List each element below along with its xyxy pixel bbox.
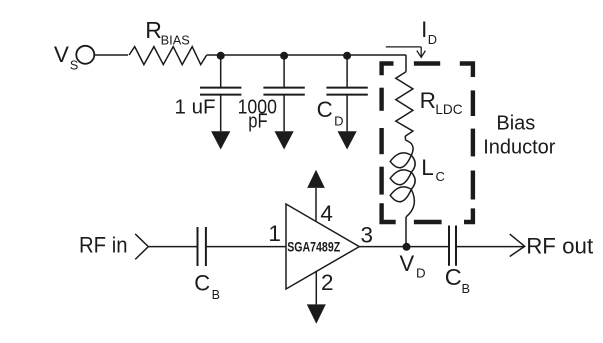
wire elbow into bias box (405, 55, 407, 72)
svg-text:CB: CB (194, 270, 220, 301)
wire top rail (207, 54, 406, 56)
svg-text:1: 1 (268, 221, 281, 246)
ground arrow 2 (275, 131, 294, 149)
svg-text:LC: LC (421, 155, 445, 184)
ground arrow 3 (338, 131, 357, 149)
svg-text:RBIAS: RBIAS (145, 17, 190, 47)
wire coil to VD node (405, 217, 407, 247)
inductor LC (390, 140, 415, 217)
node VD (403, 243, 411, 251)
node junction 3 (343, 52, 351, 60)
svg-text:VD: VD (400, 251, 426, 281)
capacitor 1uF (200, 55, 241, 131)
capacitor CB output (449, 226, 456, 266)
svg-text:Inductor: Inductor (483, 137, 556, 159)
pin 4 wire (315, 188, 317, 221)
svg-text:1 uF: 1 uF (175, 97, 216, 119)
dashed box bias inductor (382, 64, 473, 223)
svg-text:RF in: RF in (79, 233, 128, 258)
svg-text:SGA7489Z: SGA7489Z (287, 238, 340, 254)
svg-text:4: 4 (320, 201, 333, 226)
op-amp U1 triangle (286, 204, 359, 289)
capacitor CD (326, 55, 367, 131)
terminal circle Vs (76, 46, 94, 64)
wire amp to CB out (359, 246, 449, 248)
port RF out arrow (510, 234, 525, 256)
port RF in (135, 234, 148, 260)
svg-text:pF: pF (248, 111, 267, 133)
wire Vs to Rbias (94, 54, 128, 56)
wire RFin to CB (148, 246, 197, 248)
pin 2 arrow down (307, 304, 326, 323)
resistor RLDC (396, 72, 413, 137)
node junction 1 (217, 52, 225, 60)
pin 2 wire (315, 271, 317, 305)
svg-text:Bias: Bias (496, 112, 535, 134)
svg-text:3: 3 (361, 222, 374, 247)
svg-text:2: 2 (321, 270, 334, 295)
pin 4 arrow up (307, 170, 325, 188)
node junction 2 (280, 52, 288, 60)
wire CB to amp (206, 246, 286, 248)
ground arrow 1 (211, 131, 230, 149)
svg-text:RLDC: RLDC (420, 88, 463, 117)
svg-text:ID: ID (421, 17, 437, 47)
capacitor CB input (198, 227, 206, 266)
svg-text:VS: VS (54, 42, 78, 73)
svg-text:CD: CD (317, 97, 344, 129)
wire CB out to RF out (456, 246, 525, 248)
capacitor 1000pF (263, 55, 304, 131)
svg-text:RF out: RF out (526, 234, 594, 259)
svg-text:CB: CB (445, 264, 470, 296)
current arrow ID (386, 47, 426, 57)
resistor RBIAS (129, 47, 207, 65)
wire resistor to coil (404, 136, 406, 140)
